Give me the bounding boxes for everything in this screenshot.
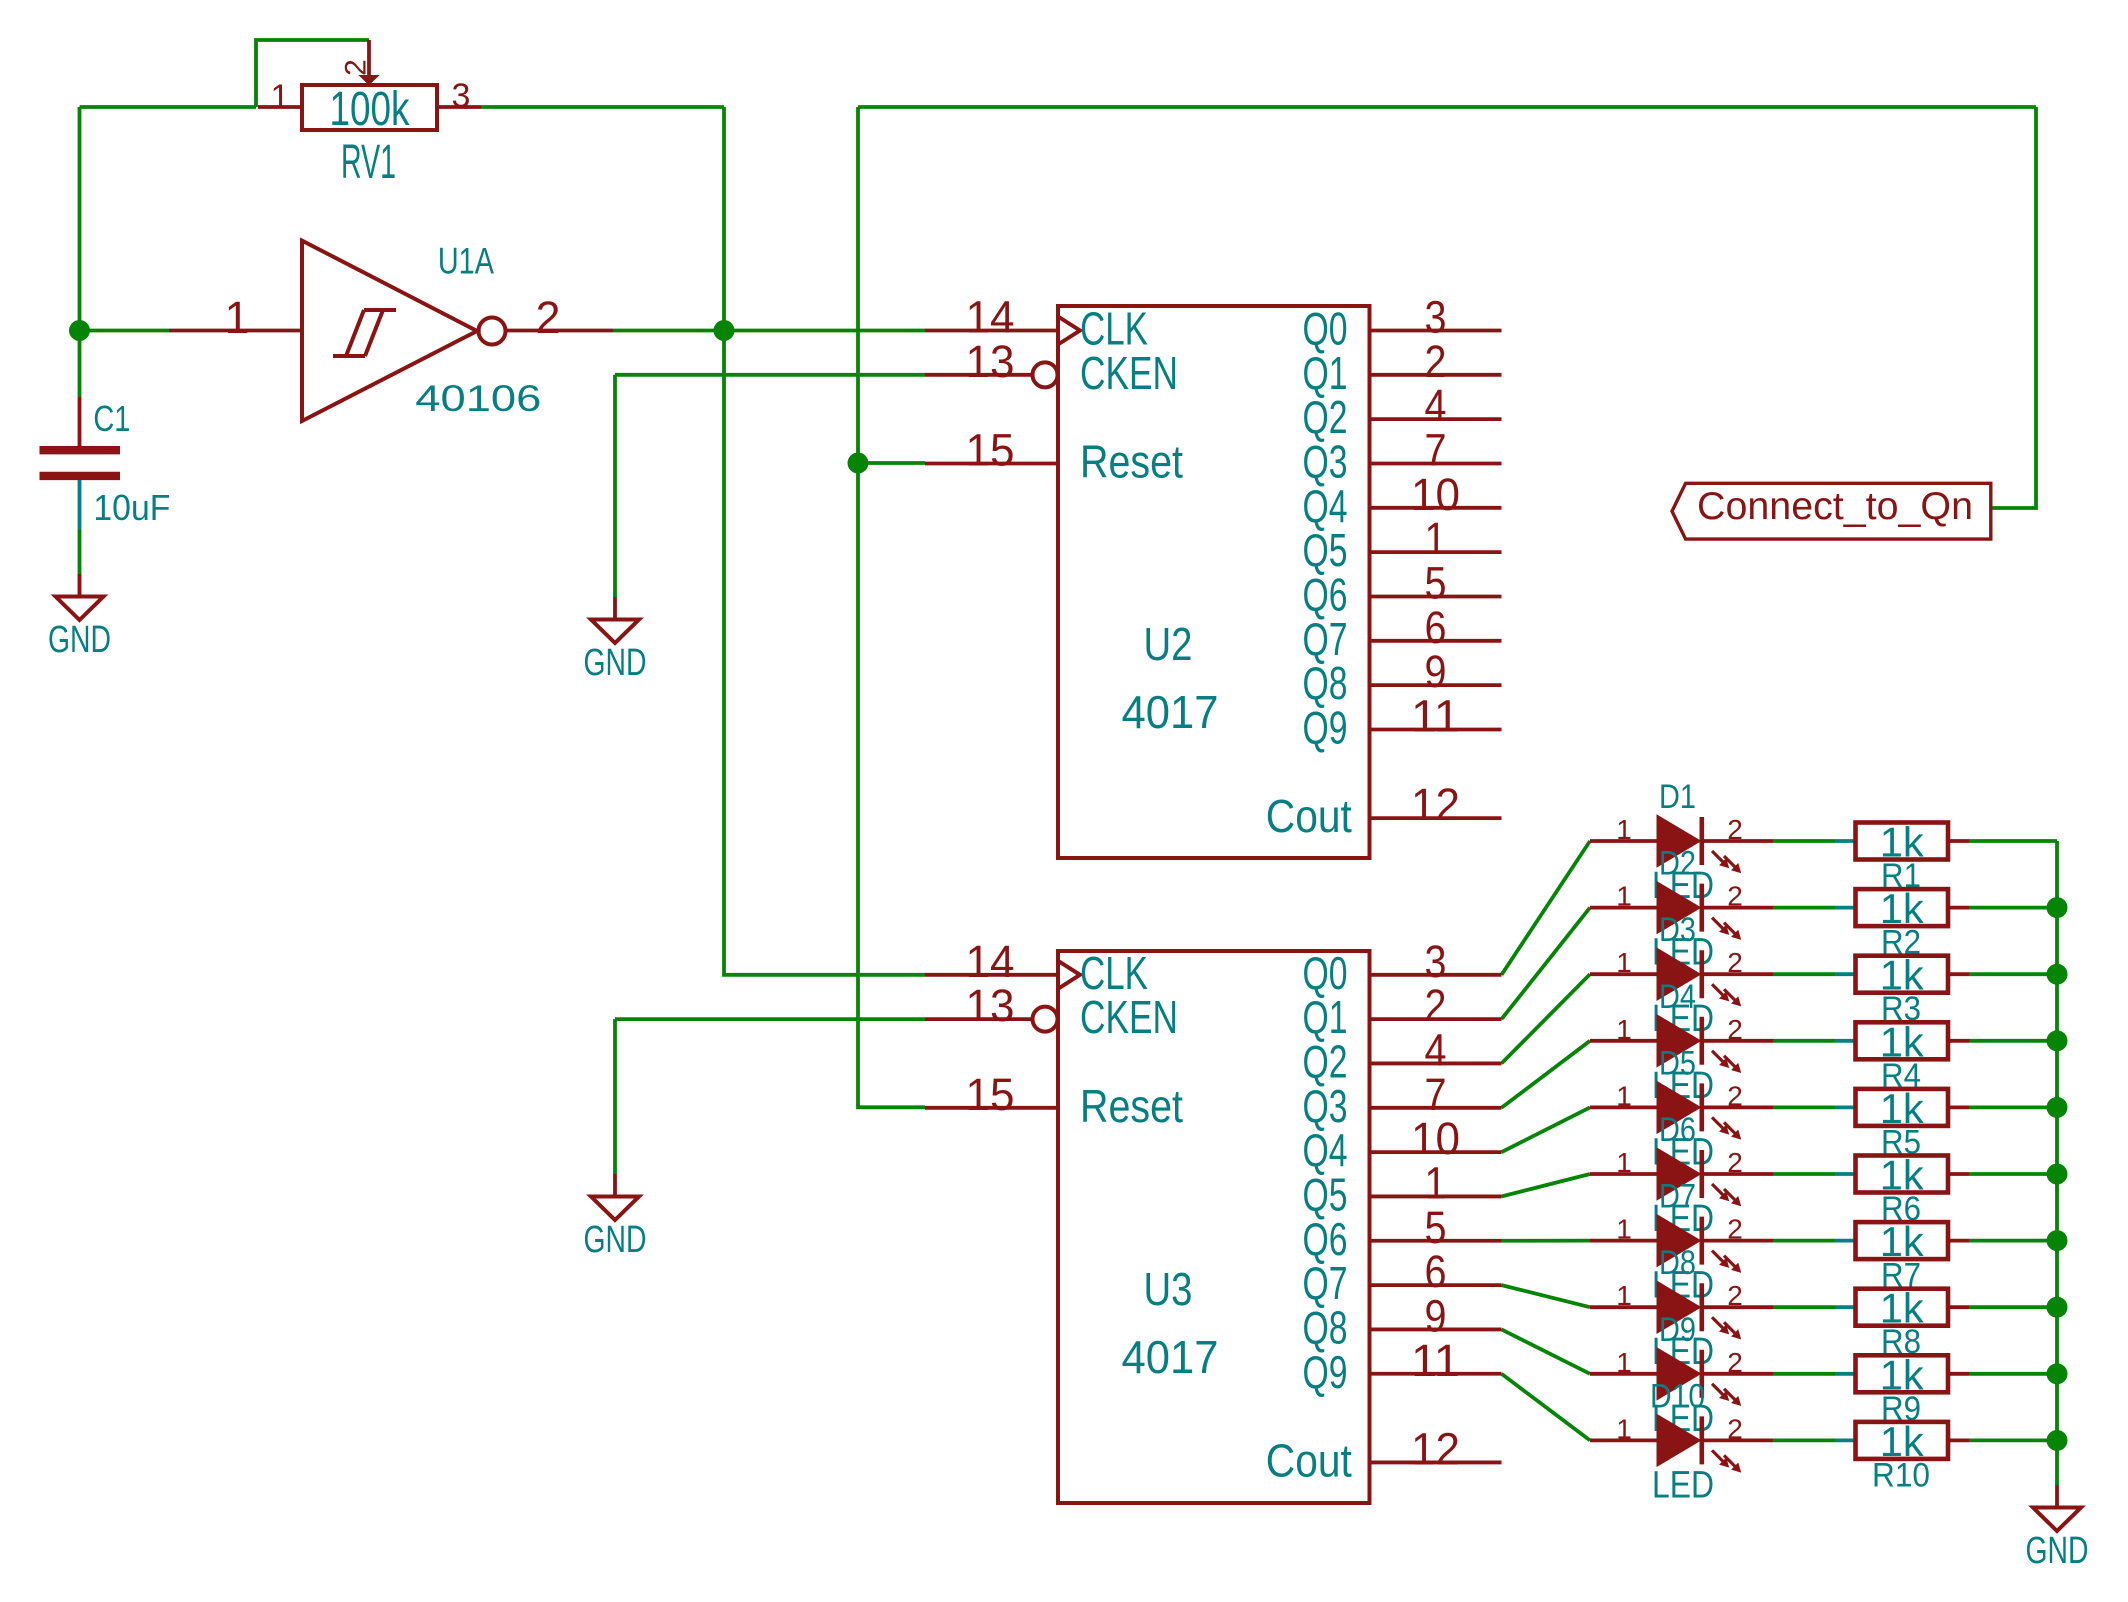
svg-text:40106: 40106 [415, 378, 541, 419]
svg-text:3: 3 [452, 77, 471, 115]
svg-text:GND: GND [584, 642, 647, 684]
svg-text:CKEN: CKEN [1080, 347, 1178, 399]
svg-text:1: 1 [1616, 1014, 1632, 1045]
svg-text:2: 2 [1727, 1280, 1743, 1311]
svg-text:2: 2 [1727, 1214, 1743, 1245]
svg-text:1: 1 [224, 292, 249, 343]
svg-text:2: 2 [1727, 1413, 1743, 1444]
svg-text:2: 2 [1727, 1147, 1743, 1178]
svg-text:10uF: 10uF [93, 487, 170, 528]
svg-text:U2: U2 [1144, 618, 1193, 670]
svg-text:RV1: RV1 [341, 136, 396, 189]
svg-text:1: 1 [1616, 881, 1632, 912]
svg-text:1: 1 [1616, 947, 1632, 978]
svg-text:Connect_to_Qn: Connect_to_Qn [1697, 485, 1973, 528]
svg-text:2: 2 [1727, 881, 1743, 912]
svg-text:13: 13 [966, 980, 1015, 1031]
svg-text:100k: 100k [330, 83, 411, 136]
svg-text:U1A: U1A [438, 241, 494, 282]
svg-text:2: 2 [1727, 1014, 1743, 1045]
svg-text:D7: D7 [1659, 1178, 1696, 1216]
svg-text:D6: D6 [1659, 1111, 1696, 1149]
svg-text:2: 2 [1727, 1080, 1743, 1111]
svg-text:Q9: Q9 [1303, 701, 1348, 753]
svg-text:Reset: Reset [1080, 435, 1183, 487]
svg-text:D8: D8 [1659, 1244, 1696, 1282]
svg-text:D2: D2 [1659, 845, 1696, 883]
svg-text:4017: 4017 [1122, 1331, 1219, 1383]
svg-text:D9: D9 [1659, 1311, 1696, 1349]
svg-text:1: 1 [1616, 1347, 1632, 1378]
svg-text:1: 1 [271, 78, 290, 116]
svg-text:15: 15 [966, 424, 1015, 475]
svg-text:1: 1 [1616, 1280, 1632, 1311]
svg-text:2: 2 [1727, 947, 1743, 978]
svg-text:Cout: Cout [1266, 1434, 1352, 1486]
svg-text:D5: D5 [1659, 1044, 1696, 1082]
svg-text:11: 11 [1411, 1335, 1460, 1386]
svg-text:2: 2 [1727, 814, 1743, 845]
svg-text:D3: D3 [1659, 911, 1696, 949]
svg-text:CKEN: CKEN [1080, 991, 1178, 1043]
svg-text:1: 1 [1616, 1413, 1632, 1444]
svg-text:C1: C1 [93, 398, 130, 439]
svg-text:Q9: Q9 [1303, 1346, 1348, 1398]
svg-text:11: 11 [1411, 690, 1460, 741]
svg-text:1: 1 [1616, 814, 1632, 845]
svg-text:2: 2 [1727, 1347, 1743, 1378]
svg-text:D1: D1 [1659, 778, 1696, 816]
svg-text:U3: U3 [1144, 1263, 1193, 1315]
svg-text:D10: D10 [1650, 1377, 1705, 1415]
svg-text:1: 1 [1616, 1147, 1632, 1178]
svg-text:12: 12 [1411, 779, 1460, 830]
svg-text:13: 13 [966, 336, 1015, 387]
svg-text:Cout: Cout [1266, 790, 1352, 842]
svg-text:1: 1 [1616, 1080, 1632, 1111]
svg-text:2: 2 [535, 292, 560, 343]
svg-text:R10: R10 [1872, 1456, 1930, 1494]
svg-text:4017: 4017 [1122, 686, 1219, 738]
svg-text:2: 2 [340, 59, 373, 76]
svg-text:GND: GND [2026, 1530, 2089, 1572]
svg-text:GND: GND [584, 1219, 647, 1261]
svg-text:1: 1 [1616, 1214, 1632, 1245]
svg-text:15: 15 [966, 1069, 1015, 1120]
svg-text:12: 12 [1411, 1423, 1460, 1474]
svg-text:D4: D4 [1659, 978, 1696, 1016]
svg-text:GND: GND [48, 619, 111, 661]
svg-text:Reset: Reset [1080, 1080, 1183, 1132]
svg-text:LED: LED [1652, 1464, 1714, 1506]
